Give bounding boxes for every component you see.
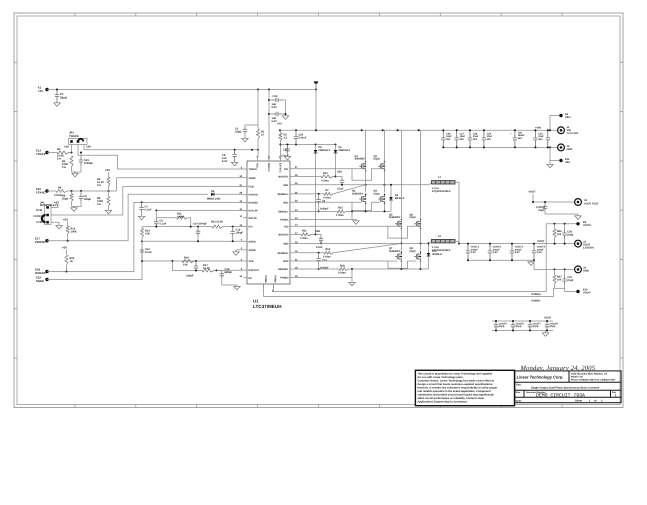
svg-text:Date:: Date: [516,399,522,402]
ground [349,281,355,286]
svg-text:1K: 1K [70,260,73,263]
connector J3 VOUT 1.5V 30A [575,240,582,247]
wire Q5 Q6 drains to VIN [400,130,402,220]
terminal E2 VIN+ [550,116,561,131]
U1 pin 7 PGND [263,284,265,288]
capacitor C13 0.1uF [140,248,144,255]
svg-text:6.3V: 6.3V [222,160,228,163]
U1 pin 31 FCB [243,186,247,188]
resistor R9 100K [108,191,110,197]
wire output cap bottom rail [468,259,534,261]
svg-text:VOSNS+: VOSNS+ [531,293,542,296]
wire BG1 net [294,201,362,203]
capacitor C36 (Opt) [564,224,566,230]
wire FSYNC net to FCB [51,187,243,216]
svg-text:PGND1: PGND1 [280,219,289,222]
capacitor C2 (Opt) [245,125,258,127]
svg-text:SENSE2-: SENSE2- [278,268,289,271]
svg-text:VOUT: VOUT [544,316,552,319]
resistor R6 0 Ohm [47,190,56,192]
svg-text:15.4K: 15.4K [203,267,210,270]
U1 pin 25 SENSE1+ [290,193,294,195]
svg-text:PGND: PGND [264,275,267,282]
diode D2 CMDSH-3 [315,145,317,151]
svg-text:CMDSH-3: CMDSH-3 [339,149,351,152]
svg-text:AGND: AGND [249,249,256,252]
svg-text:FSYNC: FSYNC [34,215,43,218]
svg-text:U1: U1 [253,299,259,304]
svg-text:C22: C22 [273,95,278,98]
transistor Q8 (Opt) [414,252,420,261]
ground [528,261,534,266]
capacitor C10 1000pF [197,227,199,229]
svg-text:+5V: +5V [54,201,59,205]
capacitor C15 330pF [195,261,197,264]
capacitor CB2 0.1uF [319,236,323,243]
wire TG1 net [294,168,362,170]
wire SENSE1+ net [294,193,324,195]
U1 pin 30 DRVCC [268,157,270,161]
U1 pin 12 ITH [243,226,247,228]
svg-text:C49: C49 [64,146,69,149]
ground [138,215,144,220]
wire TG2 net [294,225,397,227]
wire TRACK to pin [78,145,243,170]
svg-text:Title:: Title: [516,384,522,387]
svg-text:BG1: BG1 [283,201,289,204]
U1 pin 13 RUN/SS [243,201,247,203]
svg-text:SENSE1+: SENSE1+ [277,193,289,196]
svg-text:EXTVCC: EXTVCC [278,163,281,173]
svg-text:This circuit is proprietary to: This circuit is proprietary to Linear Te… [418,372,493,375]
connector J5 VOUT TEST [575,199,582,206]
svg-text:(Opt): (Opt) [533,325,539,328]
transistor Q4 (Opt) [378,194,384,203]
svg-text:100pF: 100pF [236,232,244,235]
svg-text:PGND2: PGND2 [280,277,289,280]
svg-text:FSYNC: FSYNC [36,190,45,194]
svg-text:VOUT TEST: VOUT TEST [584,203,599,206]
wire COUT5-8 top rail [492,320,553,322]
svg-text:2.5V: 2.5V [537,251,542,254]
svg-text:VOUT: VOUT [529,191,537,194]
wire SENSE1- net [294,210,337,212]
svg-text:SGND: SGND [36,279,44,283]
svg-text:0.01uF: 0.01uF [299,137,307,140]
svg-text:B340LA: B340LA [433,253,443,256]
U1 pin 14 TG2 [290,225,294,227]
inductor L1 1.7uH [432,181,456,184]
ground [545,331,547,332]
svg-text:VCC: VCC [256,163,259,168]
transistor Q1 Si4642DY [359,162,365,171]
svg-text:C14: C14 [322,259,327,262]
capacitor C9 0.1uF [155,210,157,219]
ground [56,224,62,229]
wire L2 to output rail [455,241,459,243]
svg-text:Size: Size [516,391,521,394]
svg-text:Applications Engineering for a: Applications Engineering for assistance. [418,401,468,404]
U1 pin 6 TRACK [243,168,247,170]
svg-text:+VIN: +VIN [535,127,541,130]
wire ITH net [156,226,212,228]
capacitor C18 680pF [217,270,222,271]
svg-text:VOUT: VOUT [537,240,545,243]
resistor R17 15.4K [202,269,214,272]
U1 pin 10 EXTLPF [243,209,247,211]
capacitor COUT4 330uF 2.5V [532,244,536,261]
svg-text:25V: 25V [473,138,478,141]
svg-text:R18: R18 [340,264,345,267]
svg-text:SENSE1-: SENSE1- [278,211,289,214]
svg-text:INTLPF: INTLPF [249,217,258,220]
svg-text:(Opt): (Opt) [60,95,67,99]
svg-text:C49: C49 [86,146,91,149]
svg-text:0 Ohm: 0 Ohm [300,237,309,240]
terminal E10 VOUT- [565,288,578,291]
wire BG1 gate jog to Q4 [352,202,380,210]
svg-text:+5V: +5V [277,123,282,126]
svg-text:(Opt): (Opt) [567,233,573,236]
svg-text:NC: NC [249,277,253,280]
title block frame [515,371,621,403]
svg-text:Si4642DY: Si4642DY [352,192,364,195]
svg-text:(Opt): (Opt) [538,209,544,212]
svg-text:+5V: +5V [105,168,110,172]
diode D5 MMDL1451 [211,193,214,197]
svg-text:95035-7417: 95035-7417 [571,376,584,379]
capacitor C48 1uF [546,130,550,147]
svg-text:4.99K: 4.99K [177,215,184,218]
ground [105,209,111,214]
ground [231,161,237,166]
capacitor C25 0.01uF [294,130,298,144]
capacitor COUT8 (Opt) [545,321,549,331]
capacitor C29 10uF 25V [482,130,486,147]
resistor R2 2.2 EXTVCC [279,130,281,133]
svg-text:Phone: (408)432-1900 Fax: (408: Phone: (408)432-1900 Fax: (408)434-0507 [571,379,616,382]
svg-text:0.1uF: 0.1uF [145,251,152,254]
svg-text:R19: R19 [326,248,331,251]
svg-text:100: 100 [557,233,562,236]
connector J4 GND [575,266,582,273]
transistor Q3 Si4642DY [359,194,365,203]
svg-text:2.5V: 2.5V [493,251,498,254]
resistor R26 100 [554,224,556,229]
U1 pin 23 PGND1 [290,219,294,221]
svg-text:R15: R15 [338,207,343,210]
U1 pin 16 NC [243,277,247,279]
svg-text:2.5V: 2.5V [515,251,520,254]
resistor R8 (Opt) [71,191,73,194]
transistor Q2 (Opt) [378,162,384,171]
svg-text:substitution and printed circu: substitution and printed circuit board l… [418,394,495,397]
U1 pin 3 VFB [243,260,247,262]
ground [234,285,240,290]
connector J2 GND [558,144,565,151]
svg-text:CMDSH-3: CMDSH-3 [319,149,331,152]
U1 pin 20 PGND [272,284,274,288]
resistor R18 0 Ohm [339,268,348,271]
capacitor C24 0.01uF [287,145,289,147]
U1 pin 16 SENSE2+ [290,252,294,254]
svg-text:BG2: BG2 [283,260,289,263]
svg-text:EXTLPF: EXTLPF [249,210,259,213]
svg-text:47K: 47K [145,233,150,236]
U1 pin 28 BOOST1 [290,176,294,178]
svg-text:SW1: SW1 [283,184,289,187]
ground [282,115,288,120]
wire SENSE2+ net [294,252,324,254]
U1 pin 2 VCC [257,157,259,161]
U1 pin 33 EXTVCC [279,157,281,161]
svg-text:DEMO CIRCUIT 793A: DEMO CIRCUIT 793A [536,392,585,398]
svg-text:CCM: CCM [36,221,42,224]
resistor R12 15.4K [212,225,223,228]
wire JP1 pin1 to node [71,145,73,153]
svg-text:ETQP6F1R7BFA: ETQP6F1R7BFA [432,249,451,252]
svg-text:C24: C24 [283,149,288,152]
svg-text:(Opt): (Opt) [235,131,241,134]
svg-text:MMDL1451: MMDL1451 [207,197,221,200]
svg-text:B340LA: B340LA [395,197,405,200]
wire diagonal sense to SW1 [333,185,366,194]
transistor Q5 Si4642DY [395,219,401,228]
capacitor C30 10uF 25V [533,130,537,147]
svg-text:(Opt): (Opt) [410,250,416,253]
capacitor C28 10uF 25V [468,130,472,147]
capacitor C22 1uF 6.3V [269,99,272,101]
capacitor C38 0.047uF (Opt) [544,202,546,204]
svg-text:PGOOD: PGOOD [249,193,258,196]
ground [71,207,77,212]
capacitor CIN 180uF 16V [513,130,517,147]
wire gnd rail to J4 [534,260,575,269]
svg-text:Sheet: Sheet [575,399,582,402]
ground [575,215,581,220]
inductor L2 1.7uH [432,240,456,243]
wire input cap bottom rail [443,146,557,148]
svg-text:R6: R6 [58,187,62,190]
U1 pin 24 SENSE1- [290,210,294,212]
U1 pin 27 TG1 [290,168,294,170]
wire PGOOD net [47,194,208,240]
svg-text:RUN/SS: RUN/SS [249,202,259,205]
svg-text:1630 McCarthy Blvd, Milpitas,: 1630 McCarthy Blvd, Milpitas, CA [571,373,608,376]
wire Q3 Q4 sources [365,202,367,212]
capacitor COUT3 330uF 2.5V [510,244,514,261]
terminal E13 TRACK [45,151,48,154]
terminal E18 RUN/SS [45,270,48,273]
wire VFB net [142,260,243,262]
svg-text:TRACK: TRACK [249,168,258,171]
resistor R10 0 Ohm BOOST1 [294,176,321,178]
svg-text:1: 1 [615,394,617,398]
resistor R3 15.0K [47,152,57,154]
svg-text:100: 100 [557,278,562,281]
svg-text:(Opt): (Opt) [567,279,573,282]
svg-text:BOOST1: BOOST1 [278,176,289,179]
resistor R16 10K [182,260,194,263]
svg-text:ETQP6F1R7BFA: ETQP6F1R7BFA [432,190,451,193]
svg-text:AGND: AGND [249,240,256,243]
capacitor C12 100pF [232,227,234,229]
wire SW2 node [294,242,429,244]
terminal E19 SGND [45,278,48,281]
diode D3 B340LA [390,185,392,197]
svg-text:DRVCC: DRVCC [267,163,270,172]
svg-text:10K: 10K [183,263,188,266]
svg-text:1000pF: 1000pF [84,162,93,165]
U1 pin 4 AGND [243,249,247,251]
transistor Q6 (Opt) [414,219,420,228]
U1 pin 17 BOOST2 [290,233,294,235]
svg-text:DCM: DCM [36,209,42,212]
svg-text:SENSE2+: SENSE2+ [277,252,289,255]
svg-text:100K: 100K [71,231,77,234]
svg-text:however, it remains the custom: however, it remains the customers respon… [418,387,498,390]
svg-text:(Opt): (Opt) [410,216,416,219]
U1 pin 5 AGND [243,240,247,242]
svg-text:0.1uF: 0.1uF [337,188,344,191]
diode D4 B340LA [428,243,430,253]
wire SW1 node [294,184,429,186]
border frame [14,13,623,408]
resistor R19 0 Ohm [324,251,333,254]
svg-text:+5V: +5V [63,218,68,222]
svg-text:FCB: FCB [249,186,254,189]
svg-text:6.3V: 6.3V [272,106,278,109]
svg-text:25V: 25V [460,138,465,141]
wire SENSE2- net [294,268,339,270]
svg-text:(Opt): (Opt) [374,192,380,195]
wire VRNG net [116,178,243,191]
svg-text:C10 1000pF: C10 1000pF [193,223,207,226]
node VOUT to J5 [533,201,574,203]
svg-text:R12 15.4K: R12 15.4K [211,220,223,223]
svg-text:PGOOD: PGOOD [35,240,45,244]
svg-text:TRACK: TRACK [69,134,79,138]
wire COUT5-8 bottom rail [492,330,553,332]
wire TG2 gate jog to Q6 [388,226,416,238]
svg-text:VFB: VFB [249,260,254,263]
wire L1 to output rail [455,182,459,243]
svg-text:0.1uF: 0.1uF [160,223,167,226]
ground AGND pin [236,249,243,251]
capacitor C1 [55,90,59,102]
terminal E17 PGOOD [45,239,48,242]
U1 pin 15 SW2 [290,242,294,244]
svg-text:+5V: +5V [62,246,67,250]
diode D1 CMDSH-3 [335,145,337,151]
svg-text:Si4642DY: Si4642DY [389,250,401,253]
svg-text:of: of [594,399,597,402]
capacitor C27 10uF 25V [455,130,459,147]
svg-text:Linear Technology Corp.: Linear Technology Corp. [517,375,564,380]
svg-text:RUN/SS: RUN/SS [35,271,46,275]
wire VOSNS+ net [273,284,546,292]
wire DRVCC feed [268,90,270,158]
wire E19 net [47,255,142,280]
svg-text:0.1uF: 0.1uF [316,246,323,249]
wire BG2 gate jog to Q8 [388,261,416,268]
terminal E6 VOUT+ [546,223,578,225]
svg-text:(Opt): (Opt) [550,325,556,328]
svg-text:PGND: PGND [274,275,277,282]
transistor Q7 Si4642DY [395,252,401,261]
svg-text:1.5V/30A: 1.5V/30A [583,246,594,249]
svg-text:2.2: 2.2 [284,137,288,140]
U1 pin 22 BG1 [290,201,294,203]
svg-text:25V: 25V [538,138,543,141]
capacitor C37 (Opt) [564,269,566,276]
op-amp U1 LTC3709EUH body [247,161,290,284]
svg-text:LTC3709EUH: LTC3709EUH [253,304,282,309]
connector J1 VIN [558,127,565,134]
svg-text:(Opt): (Opt) [62,198,68,201]
jumper shunt [42,215,46,222]
wire boost diode feed [280,144,335,146]
U1 pin 18 SENSE2- [290,268,294,270]
wire VOUT rail [459,243,575,245]
ground [72,172,78,177]
ground [284,155,290,160]
wire +5V rail [47,89,316,91]
resistor R4 100K [70,156,73,167]
U1 pin 8 DIFFOUT [243,269,247,271]
U1 pin 19 PGND2 [290,277,294,279]
svg-text:R21: R21 [302,230,307,233]
wire PGND2 to ground [294,277,352,279]
ground [353,220,359,225]
wire D2 to BOOST2 [315,153,317,234]
svg-text:Single Output, Dual Phase Sync: Single Output, Dual Phase Synchronous Bu… [531,387,600,390]
capacitor COUT2 330uF 2.5V [488,244,492,261]
svg-text:CB1: CB1 [337,171,343,174]
wire diagonal sense to SW2 [333,243,401,252]
wire E6 to VOSNS+ [545,224,547,292]
wire AGND rail [142,240,243,242]
svg-text:0 Ohm: 0 Ohm [338,272,347,275]
svg-text:(Opt): (Opt) [499,325,505,328]
capacitor C6 1uF 6.3V [232,150,236,161]
capacitor C14 1000pF [318,253,320,256]
svg-text:GND: GND [567,148,573,151]
capacitor CB1 0.1uF [340,178,344,185]
svg-text:+: + [510,132,512,136]
svg-text:TRACK: TRACK [36,152,46,156]
wire Q7 Q8 sources [400,259,402,269]
wire TG1 gate jog to Q2 [352,169,380,181]
svg-text:0 Ohm: 0 Ohm [321,179,330,182]
svg-text:CB2: CB2 [315,230,321,233]
terminal E1 +5V [45,88,48,91]
svg-text:680pF: 680pF [225,271,233,274]
wire gnd rail [72,171,82,173]
svg-text:VOUT+: VOUT+ [583,224,592,227]
resistor R7 0 Ohm [324,192,333,195]
wire EXTLPF net [156,209,243,211]
wire TRACK upper net [84,145,258,150]
wire VOSNS- net [264,284,554,297]
svg-text:25V: 25V [446,138,451,141]
svg-text:100pF: 100pF [84,198,92,201]
wire RUN/SS net [47,202,243,271]
capacitor C26 10uF 25V [441,130,445,147]
U1 pin 32 VRNG [243,177,247,179]
U1 pin 29 PGOOD [243,193,247,195]
svg-text:(Opt): (Opt) [516,325,522,328]
